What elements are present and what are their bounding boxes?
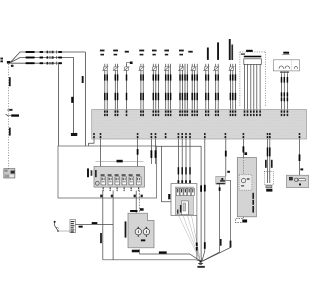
fuse F5 pins [153,110,160,116]
wire gauge label [26,62,43,64]
wire ECU pin to ground bus [100,191,103,260]
inline connector pair [47,51,54,54]
coil wires [281,73,288,109]
wire gauge label [26,57,43,59]
fuse F8 bundle [191,64,198,110]
label C001 [9,77,11,86]
wire switch ground bus [103,260,201,261]
junction box BB00 dotted outline [240,52,266,107]
wire ECU to ground main [157,146,203,261]
connector split and label [56,50,62,53]
inline connector pair [47,56,54,59]
label fuse F4 [139,50,144,52]
fuse F6 pins [165,110,172,116]
wire dashed through motor [139,191,143,255]
wire drop terminal 2 [71,58,77,137]
wire dotted to diagnostic socket [7,64,9,169]
wires band to BSI connector [178,139,191,184]
ignition coil unit 1120 [273,52,299,73]
coil wire pins [281,110,289,116]
wires BSI to ground [179,216,201,262]
label fuse F6 [164,50,169,52]
fuse F9 bundle [203,64,209,110]
wire band to sensor 1220 [225,139,230,176]
fuse F3 pins [126,110,128,116]
relay coil circle [95,181,99,185]
wire sensor 1350 below [236,217,248,223]
fuse F1 pins [104,110,108,116]
label motor vertical [125,221,127,237]
fuse F9 pins [205,110,209,116]
fuse F3 bundle [124,64,130,110]
inline connector pair [47,62,54,65]
branch arrow splice [6,114,19,117]
relay module in ECU [94,160,145,187]
wire sensor to ground [202,184,222,261]
fuse F8 pins [191,110,198,116]
ground point G100 [197,260,204,267]
label BSI vertical [87,168,97,177]
fuse F10 pins [215,110,219,116]
label C002 [9,128,11,136]
label fuse F9 vertical [207,48,209,60]
fuse F2 bundle [113,64,119,110]
BSI inner module [177,201,188,215]
wires band to knock sensor [265,139,273,171]
BSI connector cells [176,188,194,195]
fuse F7 pins [179,110,188,116]
fuse F11 bundle [229,64,236,110]
connector housing [244,59,261,65]
fuse F10 bundle [213,64,219,110]
fuse F1 bundle [102,64,108,110]
washer pump motor 2830 [128,213,154,248]
wire BSI right edge to ground [196,216,201,262]
wire band to ECU inner [100,139,102,167]
wire ECU to pump motor [130,191,137,214]
sensor 1220 box [216,176,226,184]
band bottom pin marks [93,133,300,138]
label fuse F8 [188,51,192,53]
label fuse 10A [100,50,105,52]
wire band to TDC sensor [299,139,304,175]
label fuse F7 [179,50,184,52]
TDC sensor box [287,175,309,187]
diagnostic socket [4,169,15,178]
fuse F6 bundle [164,64,171,110]
stop switch contact [54,221,70,232]
fuse F5 bundle [152,64,160,110]
wire drop line 1 to ECU [75,52,85,146]
fuse F4 bundle [139,64,145,110]
knock sensor box [264,171,273,191]
wire ECU to BSI connector [162,146,172,202]
label fuse F10 vertical [217,42,219,60]
wire ECU pin to switch corner [112,191,114,225]
label fuse F5 [152,50,157,52]
sensor 1350 box [237,158,256,217]
wire feed line 3 [11,62,59,64]
connector split and label [56,62,62,65]
wire band pin to ground [202,139,206,261]
label stub F3 [127,62,133,65]
wire pair into ECU right [151,139,157,164]
relay contact cells [101,174,142,185]
wire sensor right to ground [203,180,232,261]
wire motor ground bus [139,251,200,261]
fuse F2 pins [115,110,119,116]
wire drop to ECU left [58,63,60,146]
wire feed line 2 [11,58,74,63]
ECU bottom pin labels [100,195,143,198]
label BB00 [241,50,253,55]
node battery feed splice [0,58,13,67]
label fuse 5A [125,51,129,53]
junction box pins [245,64,261,109]
wire feed line 1 [11,52,86,62]
wire band to ECU jog [89,139,94,146]
junction box pin marks [244,110,261,116]
BSI connector box [171,184,197,216]
label fuse F11 vertical [229,39,233,60]
fuse F7 bundle [178,64,188,110]
label fuse 15A [113,50,118,52]
label motor below [132,250,140,253]
BSI connector pin marks [178,180,191,183]
ECU box 1320 [58,146,157,198]
node tick 18 [7,109,13,111]
wire gauge label [26,51,43,53]
label motor inside [141,239,145,241]
fuse F11 pins [230,110,237,116]
wire band to relay [137,139,139,167]
stop switch legend box [70,220,75,233]
interconnection harness band [92,110,307,140]
connector split and label [56,56,62,59]
busbar [244,56,261,58]
fuse F4 pins [140,110,144,116]
relay pin numbers [102,187,139,191]
wire switch horizontal [75,222,113,260]
sensor 1350 symbol [241,178,250,186]
wire band to sensor 1350 [243,139,248,158]
